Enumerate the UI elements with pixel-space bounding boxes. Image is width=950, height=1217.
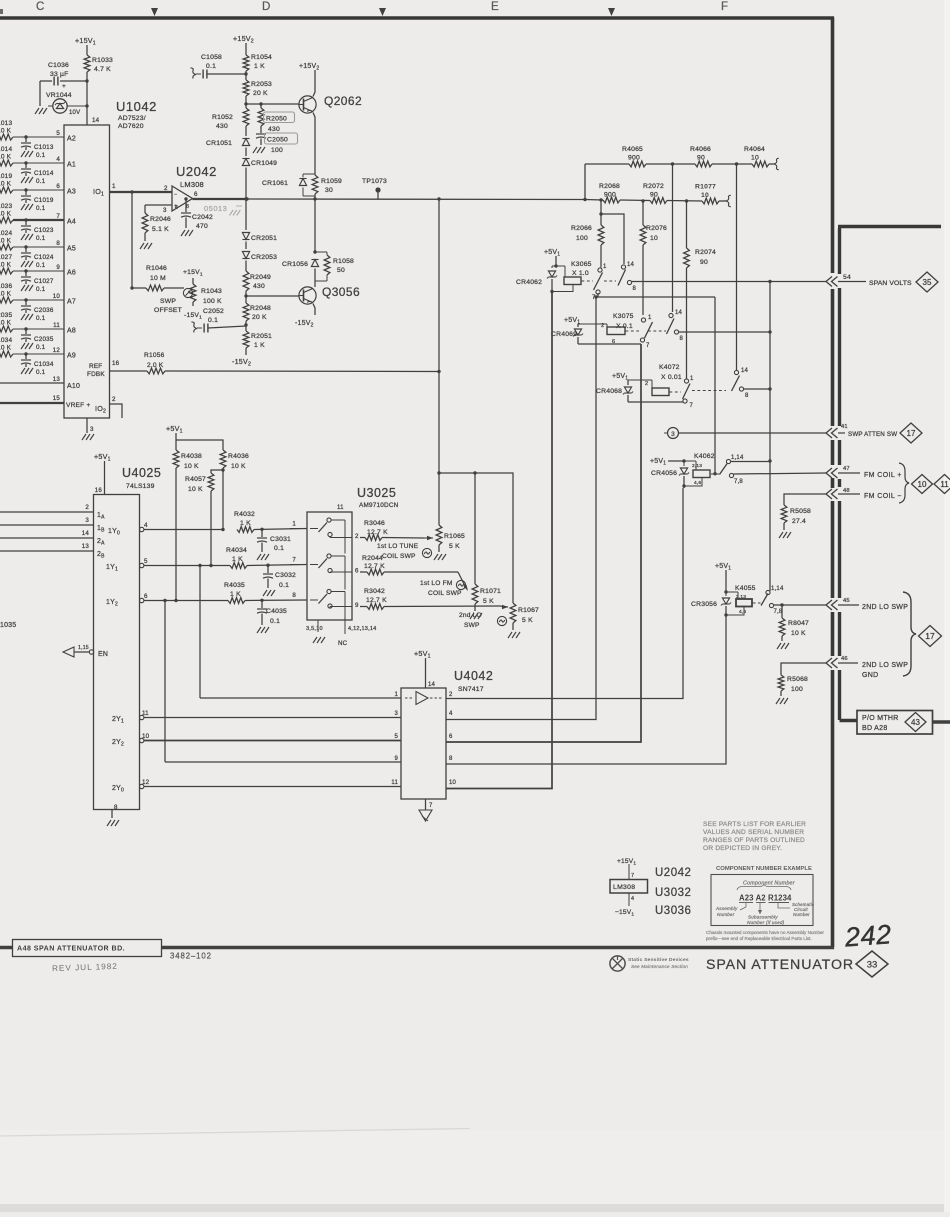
U4042 label [454, 669, 493, 693]
svg-text:R1058: R1058 [333, 258, 354, 265]
svg-text:R2076: R2076 [646, 225, 667, 232]
svg-text:U3025: U3025 [357, 486, 396, 500]
svg-text:4: 4 [175, 205, 178, 211]
svg-text:X 1.0: X 1.0 [572, 270, 589, 277]
input resistor R1023 10K (edge-clipped) [0, 203, 64, 223]
svg-text:7: 7 [690, 403, 694, 409]
U1042 pin 9 A6 [56, 264, 76, 277]
svg-text:10: 10 [701, 192, 709, 199]
svg-text:10 K: 10 K [0, 181, 12, 188]
svg-text:K4055: K4055 [735, 585, 756, 592]
svg-text:6: 6 [449, 734, 453, 740]
U4042 pin11 [391, 780, 398, 786]
svg-text:U2042: U2042 [655, 867, 691, 879]
U4042 pin8 wire to K4055 [446, 617, 726, 764]
svg-text:10 K: 10 K [791, 630, 806, 637]
U4025 input 2A [0, 530, 105, 547]
bypass capacitor C1027 0.1 [21, 269, 54, 293]
U1042 pin 15 VREF+ wire [0, 395, 90, 409]
svg-text:0.1: 0.1 [279, 582, 289, 589]
svg-text:16: 16 [95, 487, 103, 494]
svg-text:COMPONENT NUMBER EXAMPLE: COMPONENT NUMBER EXAMPLE [716, 866, 812, 872]
resistor R2046 5.1K [140, 205, 172, 249]
resistor R2068 900 [585, 183, 650, 203]
svg-text:R2053: R2053 [251, 81, 272, 88]
svg-text:C1023: C1023 [34, 227, 54, 234]
svg-text:VR1044: VR1044 [46, 92, 72, 99]
svg-text:COIL SWP: COIL SWP [382, 553, 416, 560]
svg-text:1: 1 [112, 183, 116, 190]
wire R2066 to contact 14 [601, 214, 624, 264]
diode CR1049 [242, 159, 277, 201]
svg-text:1027: 1027 [0, 254, 12, 261]
grid column label F [721, 1, 729, 13]
svg-text:46: 46 [841, 656, 848, 662]
svg-text:U2042: U2042 [176, 164, 217, 179]
resistor R1071 5K [470, 471, 501, 619]
resistor R2076 10 [640, 199, 667, 315]
svg-text:LM308: LM308 [180, 180, 204, 189]
svg-text:U3036: U3036 [655, 905, 691, 917]
input resistor R1013 10K (edge-clipped) [0, 120, 64, 140]
svg-text:A5: A5 [67, 246, 76, 253]
diode CR4062 [516, 266, 557, 292]
svg-text:CR4068: CR4068 [596, 388, 622, 395]
svg-text:10 K: 10 K [0, 128, 12, 135]
svg-text:Subassembly: Subassembly [748, 915, 778, 920]
U4042 pin5 [394, 734, 398, 740]
resistor R2053 20K [243, 80, 272, 108]
resistor R3042 12.7K [360, 588, 508, 609]
svg-text:RANGES OF PARTS OUTLINED: RANGES OF PARTS OUTLINED [703, 837, 805, 844]
resistor R5058 27.4 [779, 494, 826, 538]
svg-text:100 K: 100 K [203, 298, 222, 305]
svg-text:7: 7 [56, 213, 60, 220]
svg-text:C1019: C1019 [34, 197, 54, 204]
svg-text:SWP: SWP [464, 622, 480, 629]
resistor R1046 10M [132, 265, 184, 291]
svg-text:1,14: 1,14 [731, 455, 744, 461]
wire K4072 output [744, 387, 772, 390]
svg-text:CR2053: CR2053 [251, 254, 277, 261]
U1042 pin 11 A8 [53, 322, 76, 335]
svg-text:R4065: R4065 [622, 146, 643, 153]
U4042 pin3 [394, 711, 398, 717]
connector 54 SPAN VOLTS [826, 272, 938, 292]
svg-text:Number (if used): Number (if used) [747, 920, 785, 925]
svg-text:11: 11 [391, 780, 398, 786]
op-amp U2042 LM308 [163, 164, 217, 214]
svg-text:10 K: 10 K [231, 463, 246, 470]
svg-text:R5068: R5068 [787, 676, 808, 683]
U4042 pin1 wire [200, 692, 401, 698]
wire to R2050 branch and Q2062 base [246, 102, 299, 105]
svg-text:R2066: R2066 [571, 225, 592, 232]
svg-text:3482–102: 3482–102 [170, 952, 212, 961]
component number example box [711, 875, 813, 926]
resistor R4036 10K [220, 450, 249, 530]
svg-text:OFFSET: OFFSET [154, 307, 182, 314]
svg-text:CR1049: CR1049 [251, 160, 277, 167]
K3075 contact 1-7 [640, 315, 652, 349]
U1042 pin 10 A7 [53, 293, 76, 306]
transistor Q3056 [295, 285, 360, 329]
svg-text:1 K: 1 K [240, 520, 251, 527]
svg-text:1: 1 [648, 315, 652, 321]
U4025 input 1B [0, 517, 105, 534]
svg-text:SPAN ATTENUATOR: SPAN ATTENUATOR [706, 957, 854, 973]
svg-text:NC: NC [338, 640, 348, 647]
svg-text:C2036: C2036 [34, 307, 54, 314]
svg-text:E: E [491, 1, 499, 13]
svg-text:10 K: 10 K [0, 291, 12, 298]
svg-text:R4066: R4066 [690, 146, 711, 153]
text fragment 1035 (edge) [0, 622, 16, 629]
svg-text:−: − [174, 192, 177, 198]
capacitor C1036 33uF [40, 62, 89, 99]
svg-text:430: 430 [253, 283, 265, 290]
svg-text:10: 10 [53, 293, 61, 300]
input resistor R1014 10K (edge-clipped) [0, 146, 64, 166]
svg-text:X 0.01: X 0.01 [661, 374, 682, 381]
resistor R2066 100 [571, 198, 604, 267]
K4062 contacts [720, 455, 744, 485]
svg-text:F: F [721, 1, 729, 13]
U3025 switch 7-6 [290, 554, 359, 590]
svg-text:TP1073: TP1073 [362, 178, 387, 185]
svg-text:3,5,10: 3,5,10 [306, 626, 323, 632]
svg-text:FM COIL −: FM COIL − [864, 493, 902, 500]
wire span volts output [632, 280, 827, 283]
resistor R2048 20K [243, 303, 271, 331]
svg-text:430: 430 [268, 126, 280, 133]
svg-text:A6: A6 [67, 270, 76, 277]
relay K4055 coil [726, 585, 761, 615]
label 1ST LO TUNE COIL SWP [377, 543, 432, 560]
svg-text:8: 8 [56, 240, 60, 247]
grey note SEE PARTS LIST [703, 821, 806, 852]
resistor R1056 2.0K feedback [117, 352, 441, 374]
svg-text:2nd LO: 2nd LO [459, 612, 482, 619]
U3025 bottom pins [306, 620, 376, 647]
svg-text:U4042: U4042 [454, 669, 493, 683]
U4025 output 2Y0 [112, 779, 401, 794]
svg-text:470: 470 [196, 223, 208, 230]
svg-text:A48 SPAN ATTENUATOR BD.: A48 SPAN ATTENUATOR BD. [17, 945, 125, 953]
svg-text:8: 8 [633, 286, 637, 292]
svg-text:0.1: 0.1 [36, 369, 46, 376]
svg-text:Number: Number [717, 912, 735, 917]
brace 2nd lo swp pair [903, 592, 942, 676]
svg-text:C1027: C1027 [34, 278, 54, 285]
svg-text:10 K: 10 K [0, 238, 12, 245]
svg-text:1st LO TUNE: 1st LO TUNE [377, 543, 419, 550]
svg-text:2: 2 [449, 692, 453, 698]
svg-text:CR1051: CR1051 [206, 140, 232, 147]
svg-text:R1067: R1067 [518, 607, 539, 614]
svg-text:13: 13 [82, 543, 90, 550]
handwritten sheet number 242 [843, 919, 893, 952]
resistor R4032 1K [234, 511, 307, 532]
diode CR2053 [242, 242, 277, 272]
power -15V2 (below R2051) [232, 357, 251, 368]
svg-text:R1033: R1033 [92, 57, 113, 64]
resistor R1065 5K [434, 471, 465, 560]
bypass capacitor C2035 0.1 [21, 327, 54, 351]
svg-text:2,13: 2,13 [692, 463, 702, 469]
svg-text:1: 1 [394, 692, 398, 698]
pot R1043 100K SWP OFFSET [154, 269, 222, 321]
svg-text:1024: 1024 [0, 230, 12, 237]
svg-text:2: 2 [645, 381, 648, 387]
capacitor C2050 100 (grey outlined) [253, 133, 298, 154]
svg-text:7: 7 [292, 557, 296, 564]
svg-text:AD7620: AD7620 [118, 123, 144, 130]
connector 48 FM COIL - [826, 488, 902, 500]
svg-text:C3032: C3032 [275, 572, 296, 579]
svg-text:FDBK: FDBK [87, 371, 105, 378]
svg-text:OR DEPICTED IN GREY.: OR DEPICTED IN GREY. [703, 845, 782, 852]
diode CR4069 [551, 323, 604, 344]
svg-text:900: 900 [604, 192, 616, 199]
svg-text:4,6: 4,6 [694, 480, 701, 486]
svg-text:CR4056: CR4056 [651, 470, 677, 477]
power +5V1 for K3065 [544, 249, 560, 268]
svg-text:R2046: R2046 [150, 216, 171, 223]
wire inverting node down [130, 190, 133, 289]
power +5V1 for K4062 [650, 458, 686, 467]
svg-text:1034: 1034 [0, 337, 12, 344]
svg-text:U4025: U4025 [122, 466, 161, 480]
diode CR1051 [206, 139, 250, 157]
IC U4042 SN7417 box [401, 688, 446, 799]
svg-text:4,12,13,14: 4,12,13,14 [348, 626, 376, 632]
grid column label E [491, 1, 499, 13]
U4025 input 1A [0, 504, 105, 521]
svg-text:1: 1 [292, 521, 296, 528]
wire span volts riser [768, 282, 771, 592]
svg-text:10: 10 [751, 155, 759, 162]
resistor R1033 4.7K [84, 55, 113, 125]
svg-text:R3046: R3046 [364, 520, 385, 527]
U4025 input 2B [0, 543, 105, 560]
input resistor R1027 10K (edge-clipped) [0, 254, 64, 274]
svg-text:BD A28: BD A28 [862, 725, 888, 732]
svg-text:R2068: R2068 [599, 183, 620, 190]
resistor R2049 430 [243, 271, 271, 303]
component number header [737, 881, 795, 891]
svg-text:14: 14 [627, 262, 635, 268]
K4055 contacts [761, 586, 784, 615]
svg-text:1 K: 1 K [230, 591, 241, 598]
wire CR4068 loop bottom [628, 401, 683, 403]
resistor R1077 10 [695, 184, 731, 207]
wire main span line [184, 197, 585, 200]
svg-text:R4032: R4032 [234, 511, 255, 518]
svg-text:10: 10 [449, 780, 457, 786]
wire K3065 contact7 run [594, 293, 715, 472]
U1042 pin 8 A5 [56, 240, 76, 253]
svg-text:1,14: 1,14 [771, 586, 784, 592]
svg-text:0.1: 0.1 [270, 618, 280, 625]
svg-text:30: 30 [325, 187, 333, 194]
svg-text:C1014: C1014 [34, 170, 54, 177]
svg-text:AM9710DCN: AM9710DCN [359, 502, 399, 509]
svg-text:14: 14 [92, 117, 100, 124]
svg-text:R2044: R2044 [362, 555, 383, 562]
svg-text:C2050: C2050 [267, 137, 288, 144]
svg-text:3: 3 [394, 711, 398, 717]
svg-text:R4036: R4036 [228, 453, 249, 460]
svg-text:12: 12 [53, 347, 61, 354]
svg-text:R2074: R2074 [695, 249, 716, 256]
svg-text:1 K: 1 K [232, 556, 243, 563]
relay K3075 X0.1 coil [578, 313, 666, 345]
resistor R8047 10K [777, 605, 809, 649]
svg-text:3: 3 [90, 426, 94, 433]
svg-text:0.1: 0.1 [36, 205, 46, 212]
bypass capacitor C2036 0.1 [21, 298, 54, 322]
example number A23 A2 R1234 [739, 894, 792, 903]
label 1ST LO FM COIL SWP [420, 580, 466, 597]
svg-text:A9: A9 [67, 353, 76, 360]
wire R4065 node down to K3075 [672, 164, 674, 312]
svg-text:5 K: 5 K [449, 543, 460, 550]
input resistor R2035 10K (edge-clipped) [0, 312, 64, 332]
svg-text:AD7523/: AD7523/ [118, 115, 146, 122]
grey chassis note [706, 930, 824, 941]
svg-text:11: 11 [337, 505, 344, 511]
svg-text:12.7 K: 12.7 K [364, 563, 385, 570]
svg-text:90: 90 [700, 259, 708, 266]
svg-text:R2048: R2048 [250, 305, 271, 312]
connector 45 2ND LO SWP [826, 598, 908, 611]
K3065 contact 1-7 [592, 264, 607, 301]
K4072 contact 1-7 [683, 376, 695, 409]
svg-text:R1059: R1059 [321, 178, 342, 185]
resistor R4034 1K [226, 547, 307, 568]
power +15V1 (top left) [75, 36, 96, 55]
svg-text:2: 2 [164, 185, 168, 192]
svg-text:SN7417: SN7417 [458, 686, 484, 693]
resistor R2051 1K [243, 331, 272, 355]
wire K3075 output [679, 330, 772, 333]
svg-text:REF: REF [89, 363, 102, 370]
svg-text:5.1 K: 5.1 K [152, 226, 169, 233]
U4042 pin10 wire to K3065 coil [446, 292, 552, 789]
svg-text:EN: EN [98, 651, 108, 658]
svg-text:1019: 1019 [0, 173, 12, 180]
title box A48 SPAN ATTENUATOR BD [13, 940, 162, 957]
relay K4062 coil [684, 453, 721, 486]
svg-text:1,15: 1,15 [78, 645, 89, 651]
svg-text:0.1: 0.1 [36, 178, 46, 185]
wire to Q3056 base [246, 295, 299, 297]
power +5V1 for K3075 [564, 317, 580, 327]
svg-text:Static Sensitive Devices: Static Sensitive Devices [628, 957, 689, 963]
rev date REV JUL 1982 [52, 962, 118, 973]
U4025 output 1Y0 [108, 522, 225, 537]
K4072 contact 14-8 [732, 368, 750, 399]
svg-text:47: 47 [843, 466, 850, 472]
svg-text:11: 11 [940, 480, 949, 489]
svg-text:2ND LO SWP: 2ND LO SWP [862, 662, 908, 669]
svg-text:3: 3 [163, 207, 167, 214]
connector 46 2ND LO SWP GND [826, 656, 908, 679]
power +5V1 for K4072 [612, 373, 628, 385]
U4025 output 1Y1 [106, 558, 230, 573]
svg-text:U1042: U1042 [116, 99, 157, 114]
svg-text:R4057: R4057 [185, 476, 206, 483]
capacitor C2042 470 [181, 199, 213, 236]
svg-text:R4038: R4038 [181, 453, 202, 460]
svg-text:9: 9 [355, 602, 359, 609]
U1042 pin 5 A2 [56, 130, 76, 143]
svg-text:90: 90 [697, 155, 705, 162]
resistor R2044 12.7K [360, 555, 468, 591]
bypass capacitor C1023 0.1 [21, 218, 54, 242]
svg-text:R3042: R3042 [364, 588, 385, 595]
svg-text:4: 4 [631, 896, 634, 902]
svg-text:VALUES AND SERIAL NUMBER: VALUES AND SERIAL NUMBER [703, 829, 804, 836]
svg-text:See Maintenance Section: See Maintenance Section [631, 964, 688, 969]
power +5V1 for K4055 [715, 563, 731, 594]
input resistor R1034 10K (edge-clipped) [0, 337, 64, 357]
svg-text:27.4: 27.4 [792, 518, 806, 525]
svg-text:1: 1 [603, 264, 607, 270]
svg-text:1023: 1023 [0, 203, 12, 210]
svg-text:7: 7 [631, 873, 634, 879]
svg-text:2: 2 [112, 396, 116, 403]
U1042 pin 2 IO2 [95, 396, 122, 418]
component number example title [716, 866, 812, 872]
svg-text:14: 14 [741, 368, 749, 374]
svg-text:SEE PARTS LIST FOR EARLIER: SEE PARTS LIST FOR EARLIER [703, 821, 806, 828]
svg-text:0.1: 0.1 [206, 63, 216, 70]
U1042 pin 4 A1 [56, 156, 76, 169]
U1042 pin 16 REF FDBK [87, 360, 120, 378]
connector 41 SWP ATTEN SW [826, 423, 922, 443]
K3065 contact 14-8 [618, 262, 637, 292]
svg-text:54: 54 [843, 274, 851, 281]
svg-text:5 K: 5 K [522, 617, 533, 624]
power +5V1 for U4025 [94, 452, 111, 495]
U4025 output 1Y2 [106, 593, 228, 608]
bypass capacitor C1013 0.1 [21, 135, 54, 159]
test point TP1073 [362, 178, 387, 200]
svg-text:COIL SWP: COIL SWP [428, 590, 462, 597]
U1042 label [116, 99, 157, 130]
U3025 switch 8-9 [290, 589, 359, 625]
svg-text:8: 8 [680, 336, 684, 342]
svg-text:9: 9 [394, 756, 398, 762]
svg-text:CR2051: CR2051 [251, 235, 277, 242]
svg-text:50: 50 [337, 267, 345, 274]
brace FM COIL pair [899, 463, 950, 503]
schematic border frame [0, 18, 834, 948]
svg-text:K4062: K4062 [694, 453, 715, 460]
IC U3025 AM9710DCN box [307, 512, 352, 620]
svg-text:3: 3 [671, 431, 675, 438]
resistor R1052 430 [212, 108, 249, 136]
svg-text:10 K: 10 K [0, 211, 12, 218]
ghost text 05013 [204, 204, 242, 215]
U1042 pin 12 A9 [53, 347, 76, 360]
U1042 pin 14 [92, 117, 100, 124]
svg-text:R2050: R2050 [266, 116, 287, 123]
connector 47 FM COIL + [826, 466, 902, 479]
svg-text:6: 6 [56, 183, 60, 190]
